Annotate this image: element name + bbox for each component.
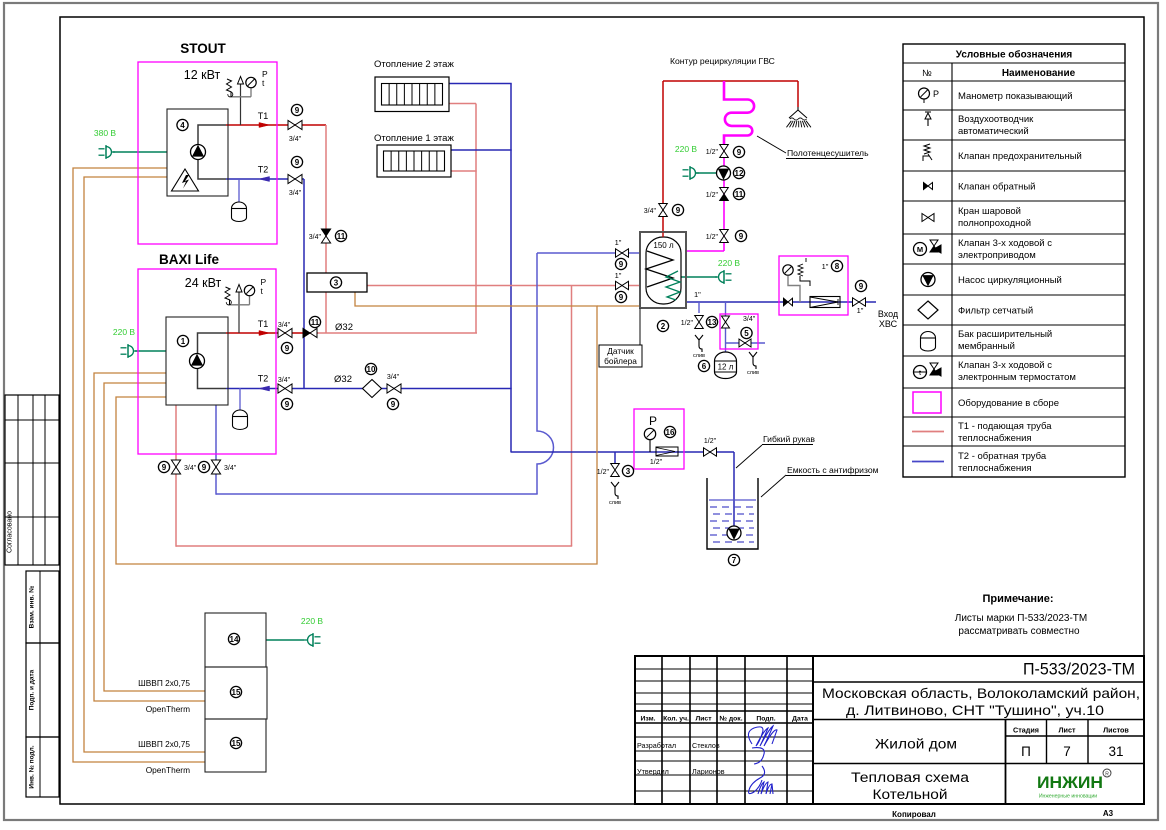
item 7 xyxy=(728,554,739,565)
svg-text:электронным термостатом: электронным термостатом xyxy=(958,372,1076,383)
distribution box 3 xyxy=(307,273,367,292)
svg-text:3: 3 xyxy=(334,278,339,287)
approval stamp table xyxy=(5,395,59,565)
svg-text:8: 8 xyxy=(835,262,840,271)
svg-text:3/4": 3/4" xyxy=(278,322,291,329)
stamp cell Podp i data xyxy=(26,643,59,737)
svg-text:3: 3 xyxy=(626,467,631,476)
svg-text:Листов: Листов xyxy=(1103,726,1129,735)
filter in box8 xyxy=(810,297,840,308)
svg-text:Насос циркуляционный: Насос циркуляционный xyxy=(958,275,1062,286)
svg-text:Воздухоотводчик: Воздухоотводчик xyxy=(958,114,1034,125)
svg-text:3/4": 3/4" xyxy=(289,136,302,143)
svg-text:Кран шаровой: Кран шаровой xyxy=(958,206,1021,217)
equipment boundary: BAXI assembled unit xyxy=(138,269,276,454)
item 12 GVS pump xyxy=(733,167,744,178)
svg-text:Условные обозначения: Условные обозначения xyxy=(956,49,1073,61)
footer labels xyxy=(892,809,1113,819)
svg-text:220 В: 220 В xyxy=(718,258,741,268)
power: 220V line to controller xyxy=(266,639,304,641)
power plug tank xyxy=(715,270,732,284)
svg-text:Инженерные инновации: Инженерные инновации xyxy=(1039,794,1097,800)
equipment boundary: STOUT assembled unit xyxy=(138,62,277,244)
legend symbol: strainer filter xyxy=(918,301,938,319)
item number 2 tank xyxy=(657,320,668,331)
submersible pump 7 xyxy=(727,526,741,540)
stadia list listov header xyxy=(1013,726,1129,735)
legend symbol: circulation pump xyxy=(921,273,935,287)
GVS pump 12 xyxy=(717,166,731,180)
svg-text:Стадия: Стадия xyxy=(1013,726,1039,735)
legend symbol: manometer xyxy=(919,88,940,103)
svg-text:14: 14 xyxy=(230,635,239,644)
svg-text:1/2": 1/2" xyxy=(706,149,719,156)
svg-text:1: 1 xyxy=(181,337,186,346)
wire: STOUT T1 red supply xyxy=(226,124,326,126)
expansion tank BAXI xyxy=(233,410,248,429)
BAXI gauge xyxy=(230,285,255,305)
item 16 xyxy=(664,426,675,437)
antifreeze tank xyxy=(707,478,758,549)
wire: STOUT T2 blue return xyxy=(226,178,304,180)
svg-text:1/2": 1/2" xyxy=(704,438,717,445)
motor 3-way valve 11 on STOUT drop xyxy=(321,229,330,243)
svg-text:слив: слив xyxy=(693,353,705,359)
wire: radiator 2fl supply stub xyxy=(449,103,476,105)
BAXI air vent xyxy=(236,285,242,293)
cable: controller B run (STOUT SHVVP) xyxy=(84,177,205,752)
item 9 bottom T2 xyxy=(198,461,209,472)
wire: STOUT T1 salmon drop to separator xyxy=(325,125,327,273)
svg-text:13: 13 xyxy=(708,318,717,327)
svg-text:STOUT: STOUT xyxy=(180,41,226,56)
svg-text:Стеклов: Стеклов xyxy=(692,741,720,750)
svg-text:Р: Р xyxy=(649,414,657,428)
svg-text:BAXI Life: BAXI Life xyxy=(159,252,219,267)
wire: separator passthrough down xyxy=(325,292,327,334)
svg-text:9: 9 xyxy=(391,400,396,409)
wire: GVS recirculation drop xyxy=(723,144,725,251)
item 11 GVS check xyxy=(733,188,744,199)
legend symbol: T2 return pipe xyxy=(912,461,944,463)
drain hook box5 xyxy=(749,352,757,369)
valve after test box xyxy=(704,448,717,456)
svg-text:Датчик: Датчик xyxy=(607,346,634,356)
item 9 GVS riser xyxy=(672,204,683,215)
legend symbol: ball valve xyxy=(922,214,934,222)
valve 9 BAXI T2 xyxy=(278,384,292,393)
wire: flexible hose drop into tank xyxy=(733,452,735,527)
pump in STOUT xyxy=(191,145,206,160)
svg-text:Тепловая схема: Тепловая схема xyxy=(851,770,970,785)
filter 10 on return xyxy=(363,380,382,398)
svg-text:П: П xyxy=(1021,744,1031,759)
svg-text:Подп.: Подп. xyxy=(756,716,775,723)
wire: fill line to hose xyxy=(684,451,734,453)
cable: controller C run (BAXI OpenTherm) xyxy=(94,373,205,701)
svg-text:220 В: 220 В xyxy=(113,327,136,337)
wire: BAXI bottom T2 drop xyxy=(215,405,217,495)
pipe: STOUT internal loop xyxy=(198,125,226,179)
svg-text:Подп. и дата: Подп. и дата xyxy=(29,669,36,710)
svg-text:П-533/2023-ТМ: П-533/2023-ТМ xyxy=(1023,661,1135,679)
svg-text:Взам. инв. №: Взам. инв. № xyxy=(29,586,36,629)
valve in box5 xyxy=(722,316,730,328)
svg-text:16: 16 xyxy=(666,428,675,437)
cable: sensor branch to tank sensor xyxy=(597,305,640,307)
item 8 xyxy=(831,260,842,271)
valve 9 on GVS riser xyxy=(659,204,668,217)
svg-text:Т2 - обратная труба: Т2 - обратная труба xyxy=(958,451,1047,462)
item 9 at BAXI T1 xyxy=(281,342,292,353)
svg-text:9: 9 xyxy=(285,400,290,409)
tank heating coil xyxy=(662,233,664,238)
svg-text:1/2": 1/2" xyxy=(706,192,719,199)
svg-text:3/4": 3/4" xyxy=(289,190,302,197)
valve 9 tank coil supply xyxy=(616,281,629,289)
item 10 at filter xyxy=(365,363,376,374)
svg-text:1": 1" xyxy=(615,271,622,280)
wire: radiator supply riser xyxy=(475,104,477,334)
title row Utverdil xyxy=(637,767,725,776)
label boiler sensor xyxy=(599,345,642,367)
item 3 drain xyxy=(622,465,633,476)
svg-text:Отопление 1 этаж: Отопление 1 этаж xyxy=(374,133,454,144)
wire: fill line from return riser xyxy=(511,451,634,453)
svg-text:3/4": 3/4" xyxy=(743,316,756,323)
controller box 15b xyxy=(205,719,266,772)
svg-text:4: 4 xyxy=(180,121,185,130)
svg-text:Т1 - подающая труба: Т1 - подающая труба xyxy=(958,421,1052,432)
svg-text:Клапан обратный: Клапан обратный xyxy=(958,182,1036,193)
signature 2 xyxy=(749,766,773,794)
svg-text:12: 12 xyxy=(735,169,744,178)
equipment boundary box 5 xyxy=(720,314,758,349)
svg-text:ХВС: ХВС xyxy=(879,319,898,329)
wire: BAXI T2 return header xyxy=(226,388,512,390)
svg-text:Кол. уч.: Кол. уч. xyxy=(663,716,689,723)
svg-text:Жилой дом: Жилой дом xyxy=(875,737,957,752)
svg-text:9: 9 xyxy=(162,463,167,472)
svg-text:Лист: Лист xyxy=(1059,726,1076,735)
svg-text:R: R xyxy=(1105,772,1109,778)
title block outer xyxy=(635,656,1144,804)
wire: fill line through test box xyxy=(634,451,684,453)
svg-text:Лист: Лист xyxy=(695,716,712,723)
legend symbol: T1 supply pipe xyxy=(912,431,944,433)
flow arrow T1 STOUT xyxy=(259,123,270,128)
check valve in box8 xyxy=(784,298,793,306)
svg-text:11: 11 xyxy=(311,318,320,327)
tank capsule xyxy=(646,237,681,304)
svg-text:3/4": 3/4" xyxy=(644,208,657,215)
svg-text:9: 9 xyxy=(676,206,681,215)
drain valve 13 xyxy=(695,316,704,329)
svg-text:1": 1" xyxy=(694,290,701,299)
svg-text:Наименование: Наименование xyxy=(1002,68,1076,79)
boiler STOUT body xyxy=(167,109,228,196)
check valve 11 GVS xyxy=(720,188,729,201)
wire: T1 manifold to radiators riser junction xyxy=(317,332,477,334)
BAXI expansion tank stub xyxy=(239,388,241,411)
svg-text:9: 9 xyxy=(737,148,742,157)
svg-text:Инв. № подл.: Инв. № подл. xyxy=(29,745,36,788)
test gauge xyxy=(644,428,655,439)
svg-text:Ø32: Ø32 xyxy=(334,374,352,385)
power plug GVS pump xyxy=(683,166,700,180)
item 9 at STOUT T2 xyxy=(291,156,302,167)
wire: GVS drop to shower xyxy=(797,81,799,107)
legend symbol: check valve xyxy=(924,183,933,190)
svg-text:д. Литвиново, СНТ "Тушино", уч: д. Литвиново, СНТ "Тушино", уч.10 xyxy=(846,703,1104,718)
svg-text:Изм.: Изм. xyxy=(640,716,655,723)
legend symbol: assembled equipment box xyxy=(913,392,941,413)
item 15a xyxy=(230,686,241,697)
flow arrow T2 BAXI xyxy=(259,386,270,391)
svg-text:3/4": 3/4" xyxy=(309,234,322,241)
power plug 380V STOUT xyxy=(99,145,116,159)
pipe: BAXI internal loop xyxy=(198,333,227,389)
equipment boundary pressure test box xyxy=(634,409,684,469)
wire: STOUT T2 drop xyxy=(303,179,305,389)
wire: box5 drain branch xyxy=(726,342,766,344)
item 11 at BAXI T1 xyxy=(309,316,320,327)
svg-text:Емкость с антифризом: Емкость с антифризом xyxy=(787,465,879,475)
svg-text:Разработал: Разработал xyxy=(637,741,676,750)
stamp cell Vzam inv no xyxy=(26,571,59,643)
sensor line to tank xyxy=(639,308,641,345)
label P t BAXI xyxy=(261,277,267,296)
svg-text:А3: А3 xyxy=(1103,809,1114,818)
test fitting xyxy=(656,447,678,456)
svg-text:мембранный: мембранный xyxy=(958,341,1015,352)
wire: radiator 1fl supply stub xyxy=(451,170,477,172)
drain valve 3 xyxy=(611,464,620,477)
svg-text:Копировал: Копировал xyxy=(892,810,936,819)
svg-text:Примечание:: Примечание: xyxy=(982,593,1053,605)
motor 3-way valve 11 BAXI T1 xyxy=(303,328,317,337)
svg-text:OpenTherm: OpenTherm xyxy=(146,704,190,714)
svg-text:1": 1" xyxy=(857,306,864,315)
box8 pressure reducer xyxy=(798,258,810,286)
wire: DHW loading supply riser xyxy=(571,286,573,547)
svg-text:ШВВП 2х0,75: ШВВП 2х0,75 xyxy=(138,678,190,688)
svg-text:1/2": 1/2" xyxy=(597,469,610,476)
svg-text:1/2": 1/2" xyxy=(706,234,719,241)
cable: controller A run (STOUT OpenTherm) xyxy=(73,168,205,762)
svg-text:Утвердил: Утвердил xyxy=(637,767,669,776)
item 13 xyxy=(706,316,717,327)
svg-text:1/2": 1/2" xyxy=(681,320,694,327)
legend table grid xyxy=(903,44,1125,477)
svg-text:9: 9 xyxy=(619,293,624,302)
svg-text:Отопление 2 этаж: Отопление 2 этаж xyxy=(374,59,454,70)
STOUT safety group stem xyxy=(240,84,242,125)
svg-text:Полотенцесушитель: Полотенцесушитель xyxy=(787,148,869,158)
svg-text:9: 9 xyxy=(295,106,300,115)
svg-text:Оборудование в сборе: Оборудование в сборе xyxy=(958,398,1059,409)
svg-text:Клапан 3-х ходовой с: Клапан 3-х ходовой с xyxy=(958,360,1052,371)
svg-text:6: 6 xyxy=(702,362,707,371)
equipment boundary box 8 xyxy=(779,256,848,315)
svg-text:9: 9 xyxy=(859,282,864,291)
signature 1 xyxy=(748,726,777,764)
svg-text:теплоснабжения: теплоснабжения xyxy=(958,433,1032,444)
svg-text:24 кВт: 24 кВт xyxy=(185,276,222,290)
item 6 xyxy=(698,360,709,371)
callout flexible hose xyxy=(736,434,815,468)
svg-text:бойлера: бойлера xyxy=(604,356,637,366)
svg-text:5: 5 xyxy=(744,329,749,338)
svg-text:ИНЖИН: ИНЖИН xyxy=(1037,773,1103,792)
wire: DHW loading return bottom run xyxy=(216,493,538,495)
title row Razrabotal xyxy=(637,741,720,750)
svg-text:3/4": 3/4" xyxy=(184,465,197,472)
title right grid xyxy=(813,682,1144,804)
STOUT air vent xyxy=(238,77,244,85)
callout towel rail xyxy=(757,136,869,159)
item 9 tank coil xyxy=(615,291,626,302)
svg-text:220 В: 220 В xyxy=(301,616,324,626)
power: 220V line to BAXI xyxy=(135,350,166,352)
flow arrow T1 BAXI xyxy=(259,331,270,336)
svg-text:Ø32: Ø32 xyxy=(335,322,353,333)
legend symbol: safety valve xyxy=(923,144,932,161)
box8 gauge piping xyxy=(788,276,800,302)
stamp cell Inv no podl xyxy=(26,737,59,797)
item 9 at BAXI T2 xyxy=(281,398,292,409)
svg-text:Ларионов: Ларионов xyxy=(692,767,725,776)
svg-text:9: 9 xyxy=(619,260,624,269)
valve 9 STOUT T2 xyxy=(288,174,302,183)
valve 9 towel top xyxy=(720,145,729,158)
wire: GVS top run xyxy=(663,80,798,82)
item 9 at STOUT T1 xyxy=(291,104,302,115)
wire: drain stub valve3 xyxy=(614,452,616,463)
svg-text:9: 9 xyxy=(202,463,207,472)
title block left table grid xyxy=(635,656,813,804)
item number 4 xyxy=(177,119,188,130)
svg-text:Т2: Т2 xyxy=(258,374,269,384)
electric warning triangle xyxy=(172,169,199,191)
svg-text:Т1: Т1 xyxy=(258,111,269,121)
item number 3 xyxy=(330,277,341,288)
BAXI safety group stem xyxy=(238,292,240,333)
stadia values xyxy=(1021,744,1123,759)
svg-text:10: 10 xyxy=(367,365,376,374)
svg-text:12 л: 12 л xyxy=(718,363,734,372)
cable: controller D run (BAXI SHVVP) xyxy=(104,383,205,691)
item 14 xyxy=(228,633,239,644)
wire: drain stub valve13 xyxy=(698,302,700,313)
svg-text:380 В: 380 В xyxy=(94,128,117,138)
svg-text:автоматический: автоматический xyxy=(958,126,1029,137)
power plug 220V BAXI xyxy=(121,344,138,358)
wire: towel rail serpentine xyxy=(724,81,754,144)
svg-text:электроприводом: электроприводом xyxy=(958,250,1036,261)
valve 9 tank return xyxy=(616,249,629,257)
legend symbol: 3-way motor valve xyxy=(914,240,942,256)
svg-text:№: № xyxy=(922,68,932,78)
valve on return after filter xyxy=(387,384,401,393)
svg-text:31: 31 xyxy=(1108,744,1123,759)
svg-text:3/4": 3/4" xyxy=(387,374,400,381)
svg-text:полнопроходной: полнопроходной xyxy=(958,218,1031,229)
power: 220V line to GVS pump xyxy=(696,172,716,174)
valve 9 BAXI T1 xyxy=(278,328,292,337)
svg-text:220 В: 220 В xyxy=(675,144,698,154)
shower head xyxy=(786,107,810,127)
svg-text:Манометр показывающий: Манометр показывающий xyxy=(958,91,1073,102)
svg-text:3/4": 3/4" xyxy=(224,465,237,472)
svg-text:Московская область, Волоколамс: Московская область, Волоколамский район, xyxy=(822,686,1140,701)
wire: DHW loading return riser with crossover arc xyxy=(537,253,554,494)
wire: radiator return riser xyxy=(510,84,512,453)
svg-text:ШВВП 2х0,75: ШВВП 2х0,75 xyxy=(138,739,190,749)
item 9 cold water xyxy=(855,280,866,291)
wire: radiator 1fl return stub xyxy=(451,149,512,151)
svg-text:Согласовано: Согласовано xyxy=(7,511,14,553)
svg-text:11: 11 xyxy=(735,190,744,199)
svg-text:Котельной: Котельной xyxy=(873,787,948,802)
svg-text:Гибкий рукав: Гибкий рукав xyxy=(763,434,815,444)
item number 1 xyxy=(177,335,188,346)
svg-text:слив: слив xyxy=(609,500,621,506)
wire: DHW loading supply bottom run xyxy=(176,545,572,547)
svg-text:Фильтр сетчатый: Фильтр сетчатый xyxy=(958,306,1033,317)
svg-text:№ док.: № док. xyxy=(719,716,742,723)
svg-text:9: 9 xyxy=(295,158,300,167)
item 11 at STOUT drop xyxy=(335,230,346,241)
svg-text:Р: Р xyxy=(933,89,939,99)
wire: GVS recirculation to tank xyxy=(686,250,724,252)
antifreeze level xyxy=(709,500,756,542)
item 9 towel top xyxy=(733,146,744,157)
radiator floor 1 xyxy=(377,145,451,177)
item 9 bottom T1 xyxy=(158,461,169,472)
legend subheader xyxy=(922,68,1075,79)
BAXI safety valve xyxy=(225,287,231,305)
expansion tank 12l xyxy=(715,352,737,379)
expansion tank STOUT xyxy=(232,202,247,222)
svg-text:слив: слив xyxy=(747,370,759,376)
svg-text:7: 7 xyxy=(1063,744,1071,759)
svg-text:9: 9 xyxy=(285,344,290,353)
svg-text:Листы марки П-533/2023-ТМ: Листы марки П-533/2023-ТМ xyxy=(955,613,1087,624)
svg-text:9: 9 xyxy=(739,232,744,241)
svg-text:1": 1" xyxy=(822,262,829,271)
callout antifreeze tank xyxy=(761,465,879,497)
controller box 15a xyxy=(205,667,267,719)
title header row labels xyxy=(640,716,808,723)
item 9 at return valve xyxy=(387,398,398,409)
svg-text:15: 15 xyxy=(232,688,241,697)
flow arrow T2 STOUT xyxy=(259,177,270,182)
STOUT safety valve xyxy=(227,79,233,97)
svg-text:12 кВт: 12 кВт xyxy=(184,68,221,82)
valve 9 STOUT T1 xyxy=(288,120,302,129)
valve 9 cold water inlet xyxy=(853,298,866,306)
svg-text:Контур рециркуляции ГВС: Контур рециркуляции ГВС xyxy=(670,56,775,66)
svg-text:150 л: 150 л xyxy=(653,241,674,250)
STOUT gauge xyxy=(231,77,256,97)
item 9 tank return xyxy=(615,258,626,269)
svg-text:Т1: Т1 xyxy=(258,319,269,329)
svg-text:OpenTherm: OpenTherm xyxy=(146,765,190,775)
label inlet XVS xyxy=(878,309,899,329)
svg-text:11: 11 xyxy=(337,232,346,241)
water heater tank 150l xyxy=(640,232,686,308)
